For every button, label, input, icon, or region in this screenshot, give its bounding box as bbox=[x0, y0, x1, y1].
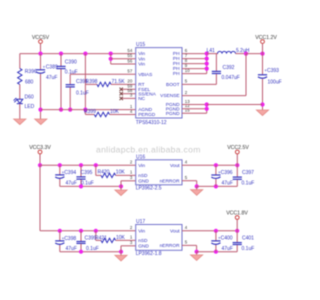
svg-text:47uF: 47uF bbox=[66, 180, 77, 186]
svg-text:57: 57 bbox=[127, 69, 132, 74]
svg-text:0.1uF: 0.1uF bbox=[242, 246, 255, 252]
svg-text:R420: R420 bbox=[98, 170, 110, 176]
svg-text:680: 680 bbox=[25, 80, 34, 86]
svg-text:anlidapcb.en.alibaba.com: anlidapcb.en.alibaba.com bbox=[96, 144, 201, 154]
svg-text:C394: C394 bbox=[64, 170, 76, 176]
svg-text:Vout: Vout bbox=[170, 163, 180, 169]
svg-text:C389: C389 bbox=[46, 65, 58, 71]
svg-text:L41: L41 bbox=[207, 48, 216, 54]
svg-text:TPS54310-12: TPS54310-12 bbox=[136, 120, 167, 126]
svg-text:C398: C398 bbox=[64, 236, 76, 242]
svg-text:5.2uH: 5.2uH bbox=[236, 48, 250, 54]
svg-text:U15: U15 bbox=[136, 42, 145, 48]
svg-text:LED: LED bbox=[25, 104, 35, 110]
svg-text:0.1uF: 0.1uF bbox=[76, 90, 89, 96]
svg-text:BOOT: BOOT bbox=[166, 82, 180, 88]
svg-text:D60: D60 bbox=[25, 94, 34, 100]
svg-text:15: 15 bbox=[185, 108, 190, 113]
svg-text:C395: C395 bbox=[81, 170, 93, 176]
svg-text:LP3962-1.8: LP3962-1.8 bbox=[136, 251, 162, 257]
svg-text:VBIAS: VBIAS bbox=[138, 72, 152, 78]
svg-text:0.1uF: 0.1uF bbox=[81, 180, 94, 186]
svg-text:47uF: 47uF bbox=[222, 180, 233, 186]
svg-text:NC: NC bbox=[138, 96, 145, 102]
svg-text:C393: C393 bbox=[267, 68, 279, 74]
svg-text:U17: U17 bbox=[136, 219, 145, 225]
svg-text:71.5K: 71.5K bbox=[112, 79, 126, 85]
svg-text:Vin: Vin bbox=[138, 62, 145, 68]
svg-text:U16: U16 bbox=[136, 154, 145, 160]
svg-text:10K: 10K bbox=[116, 235, 126, 241]
svg-text:C390: C390 bbox=[65, 59, 77, 65]
svg-text:Vin: Vin bbox=[138, 56, 145, 62]
svg-text:10K: 10K bbox=[116, 170, 126, 176]
svg-text:nSD: nSD bbox=[138, 173, 148, 179]
svg-text:C401: C401 bbox=[242, 236, 254, 242]
svg-text:100uF: 100uF bbox=[268, 79, 282, 85]
svg-text:10K: 10K bbox=[110, 109, 120, 115]
svg-text:nERROR: nERROR bbox=[160, 243, 181, 249]
svg-text:R399: R399 bbox=[84, 109, 96, 115]
svg-text:R396: R396 bbox=[25, 69, 37, 75]
svg-text:PGND: PGND bbox=[166, 111, 180, 117]
svg-text:Vin: Vin bbox=[138, 228, 145, 234]
svg-text:GND: GND bbox=[138, 243, 149, 249]
svg-text:Vin: Vin bbox=[138, 51, 145, 57]
svg-text:C397: C397 bbox=[242, 170, 254, 176]
svg-text:R421: R421 bbox=[95, 236, 107, 242]
svg-text:VCC1.2V: VCC1.2V bbox=[255, 35, 277, 41]
svg-text:Vout: Vout bbox=[170, 228, 180, 234]
svg-text:PERGD: PERGD bbox=[138, 112, 156, 118]
svg-text:LP3962-2.5: LP3962-2.5 bbox=[136, 185, 162, 191]
svg-text:47uF: 47uF bbox=[46, 75, 57, 81]
svg-text:Vin: Vin bbox=[138, 163, 145, 169]
svg-text:nSD: nSD bbox=[138, 238, 148, 244]
svg-text:47uF: 47uF bbox=[222, 246, 233, 252]
svg-text:C392: C392 bbox=[223, 65, 235, 71]
svg-text:C400: C400 bbox=[221, 236, 233, 242]
svg-text:0.047uF: 0.047uF bbox=[222, 75, 240, 81]
svg-text:56: 56 bbox=[127, 58, 132, 63]
svg-text:C396: C396 bbox=[221, 170, 233, 176]
svg-text:VSENSE: VSENSE bbox=[160, 93, 179, 99]
svg-text:47uF: 47uF bbox=[66, 246, 77, 252]
svg-text:0.1uF: 0.1uF bbox=[242, 180, 255, 186]
svg-text:GND: GND bbox=[138, 178, 149, 184]
svg-text:0.1uF: 0.1uF bbox=[86, 246, 99, 252]
svg-text:nERROR: nERROR bbox=[160, 178, 181, 184]
svg-text:PH: PH bbox=[173, 71, 180, 77]
